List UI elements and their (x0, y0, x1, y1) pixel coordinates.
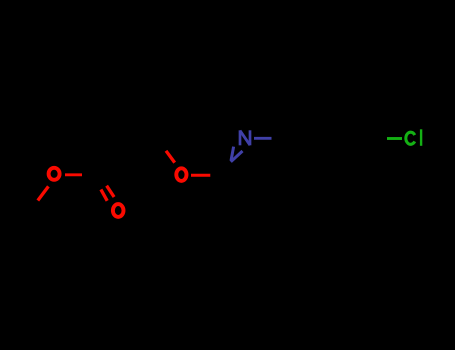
atom O2 (carbonyl oxygen) letter O (101, 186, 124, 217)
atom O1 (methoxy oxygen) letter O (38, 168, 82, 201)
atom Cl (chlorine) letters Cl (387, 129, 421, 146)
wire phenyl-Cl half-bond (387, 137, 402, 140)
atom N (imine nitrogen) letter N (231, 130, 272, 162)
wire C=N double bond main line half (231, 151, 243, 162)
atom O3 (imidate oxygen) letter O (166, 151, 210, 181)
wire C=O2 double bond main line half (107, 186, 115, 197)
wire C=N double bond second line half (231, 147, 234, 161)
wire O3-C(imine) half-bond (191, 174, 210, 177)
wire O1-CH3 half-bond (38, 186, 49, 200)
wire N-phenyl half-bond (254, 137, 272, 140)
wire O3-CH2 half-bond (166, 151, 175, 163)
wire O1-C(carbonyl) half-bond (65, 173, 82, 176)
wire C=O2 double bond second line half (101, 189, 107, 200)
